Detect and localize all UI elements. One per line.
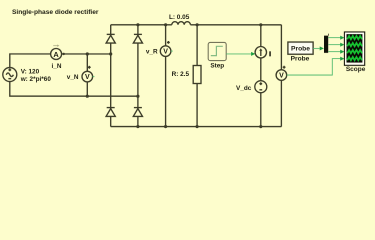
junction: V_dc branch at bottom rail xyxy=(259,125,262,128)
svg-text:V: V xyxy=(85,74,90,81)
junction: right bridge leg midpoint xyxy=(136,95,139,98)
junction: v_R branch at top rail xyxy=(164,23,167,26)
wire: DC- bottom rail xyxy=(111,126,282,128)
junction: left bridge leg midpoint xyxy=(109,52,112,55)
svg-text:Scope: Scope xyxy=(346,66,366,73)
signal wire: output voltmeter to scope input 4 xyxy=(287,59,341,75)
svg-text:v_N: v_N xyxy=(67,74,79,81)
svg-text:Probe: Probe xyxy=(291,55,310,62)
svg-text:V_dc: V_dc xyxy=(236,85,252,92)
svg-text:V: V xyxy=(279,73,284,80)
probe block (Probe) xyxy=(288,42,313,54)
svg-text:A: A xyxy=(53,50,59,59)
wire: AC source bottom lead / neutral run to right bridge leg midpoint xyxy=(10,82,138,97)
wire: v_N voltmeter upper lead xyxy=(86,54,88,71)
DC voltage source V_dc xyxy=(255,81,267,93)
wire: output voltmeter V branch leads xyxy=(280,25,282,127)
step source block (Step) xyxy=(208,42,226,60)
svg-text:Single-phase diode rectifier: Single-phase diode rectifier xyxy=(12,9,99,16)
diode D2 (top right) xyxy=(133,34,142,43)
svg-text:Probe: Probe xyxy=(291,46,310,53)
scope waveform traces xyxy=(347,36,362,60)
wire: right bridge leg vertical xyxy=(137,25,139,127)
junction: right leg at bottom rail xyxy=(136,125,139,128)
signal wires: demux to scope inputs 1-3 xyxy=(328,38,340,52)
diode D4 (bottom right) xyxy=(133,108,142,117)
junction: right leg at top rail xyxy=(136,23,139,26)
wire: left bridge leg vertical xyxy=(110,25,112,127)
signal wire: step output to current source control xyxy=(226,53,251,55)
junction: v_N tap on neutral wire xyxy=(86,95,89,98)
junction: I branch at top rail xyxy=(259,23,262,26)
resistor R1 xyxy=(193,66,201,84)
ammeter A1 xyxy=(51,48,62,59)
wire: v_N voltmeter lower lead xyxy=(86,82,88,96)
junction: ammeter output terminal xyxy=(63,53,65,55)
wire: AC source top lead to ammeter (net N_hot) xyxy=(10,54,51,68)
junction: R branch at top rail xyxy=(196,23,199,26)
signal demultiplexer bar xyxy=(324,36,328,53)
junction: R branch at bottom rail xyxy=(195,125,198,128)
junction: v_R branch at bottom rail xyxy=(164,125,167,128)
voltmeter VM2 (v_R) xyxy=(160,41,171,56)
voltmeter VM3 (DC output) xyxy=(276,66,287,81)
svg-text:V: 120: V: 120 xyxy=(21,68,40,75)
signal wire: probe output to demux xyxy=(313,47,320,49)
name label I xyxy=(269,51,271,56)
svg-text:v_R: v_R xyxy=(146,48,158,55)
wire: DC+ top rail, bridge to inductor xyxy=(111,24,172,26)
diode D3 (bottom left) xyxy=(106,108,115,117)
svg-text:L: 0.05: L: 0.05 xyxy=(169,14,190,21)
wire: current source I / V_dc branch leads xyxy=(260,25,262,127)
wire: resistor R branch leads xyxy=(196,25,198,127)
svg-text:R: 2.5: R: 2.5 xyxy=(172,71,190,78)
controlled current source I1 xyxy=(255,47,266,58)
inductor L1 (L: 0.05) coil xyxy=(172,22,191,25)
svg-text:V: V xyxy=(163,49,168,56)
voltmeter VM1 (v_N) xyxy=(82,66,93,82)
wire: v_R voltmeter branch leads xyxy=(165,25,167,127)
svg-text:Step: Step xyxy=(210,63,224,70)
AC voltage source V_ac xyxy=(3,68,17,82)
diode D1 (top left) xyxy=(106,34,115,43)
wire: ammeter to left bridge leg midpoint xyxy=(62,53,111,55)
scope block (Scope) xyxy=(344,32,364,65)
svg-text:i_N: i_N xyxy=(52,63,62,70)
ammeter direction arrow xyxy=(53,45,58,47)
svg-text:w: 2*pi*60: w: 2*pi*60 xyxy=(20,76,52,83)
wire: DC+ top rail, inductor to output corner xyxy=(190,24,281,26)
junction: v_N tap on hot wire xyxy=(86,52,89,55)
